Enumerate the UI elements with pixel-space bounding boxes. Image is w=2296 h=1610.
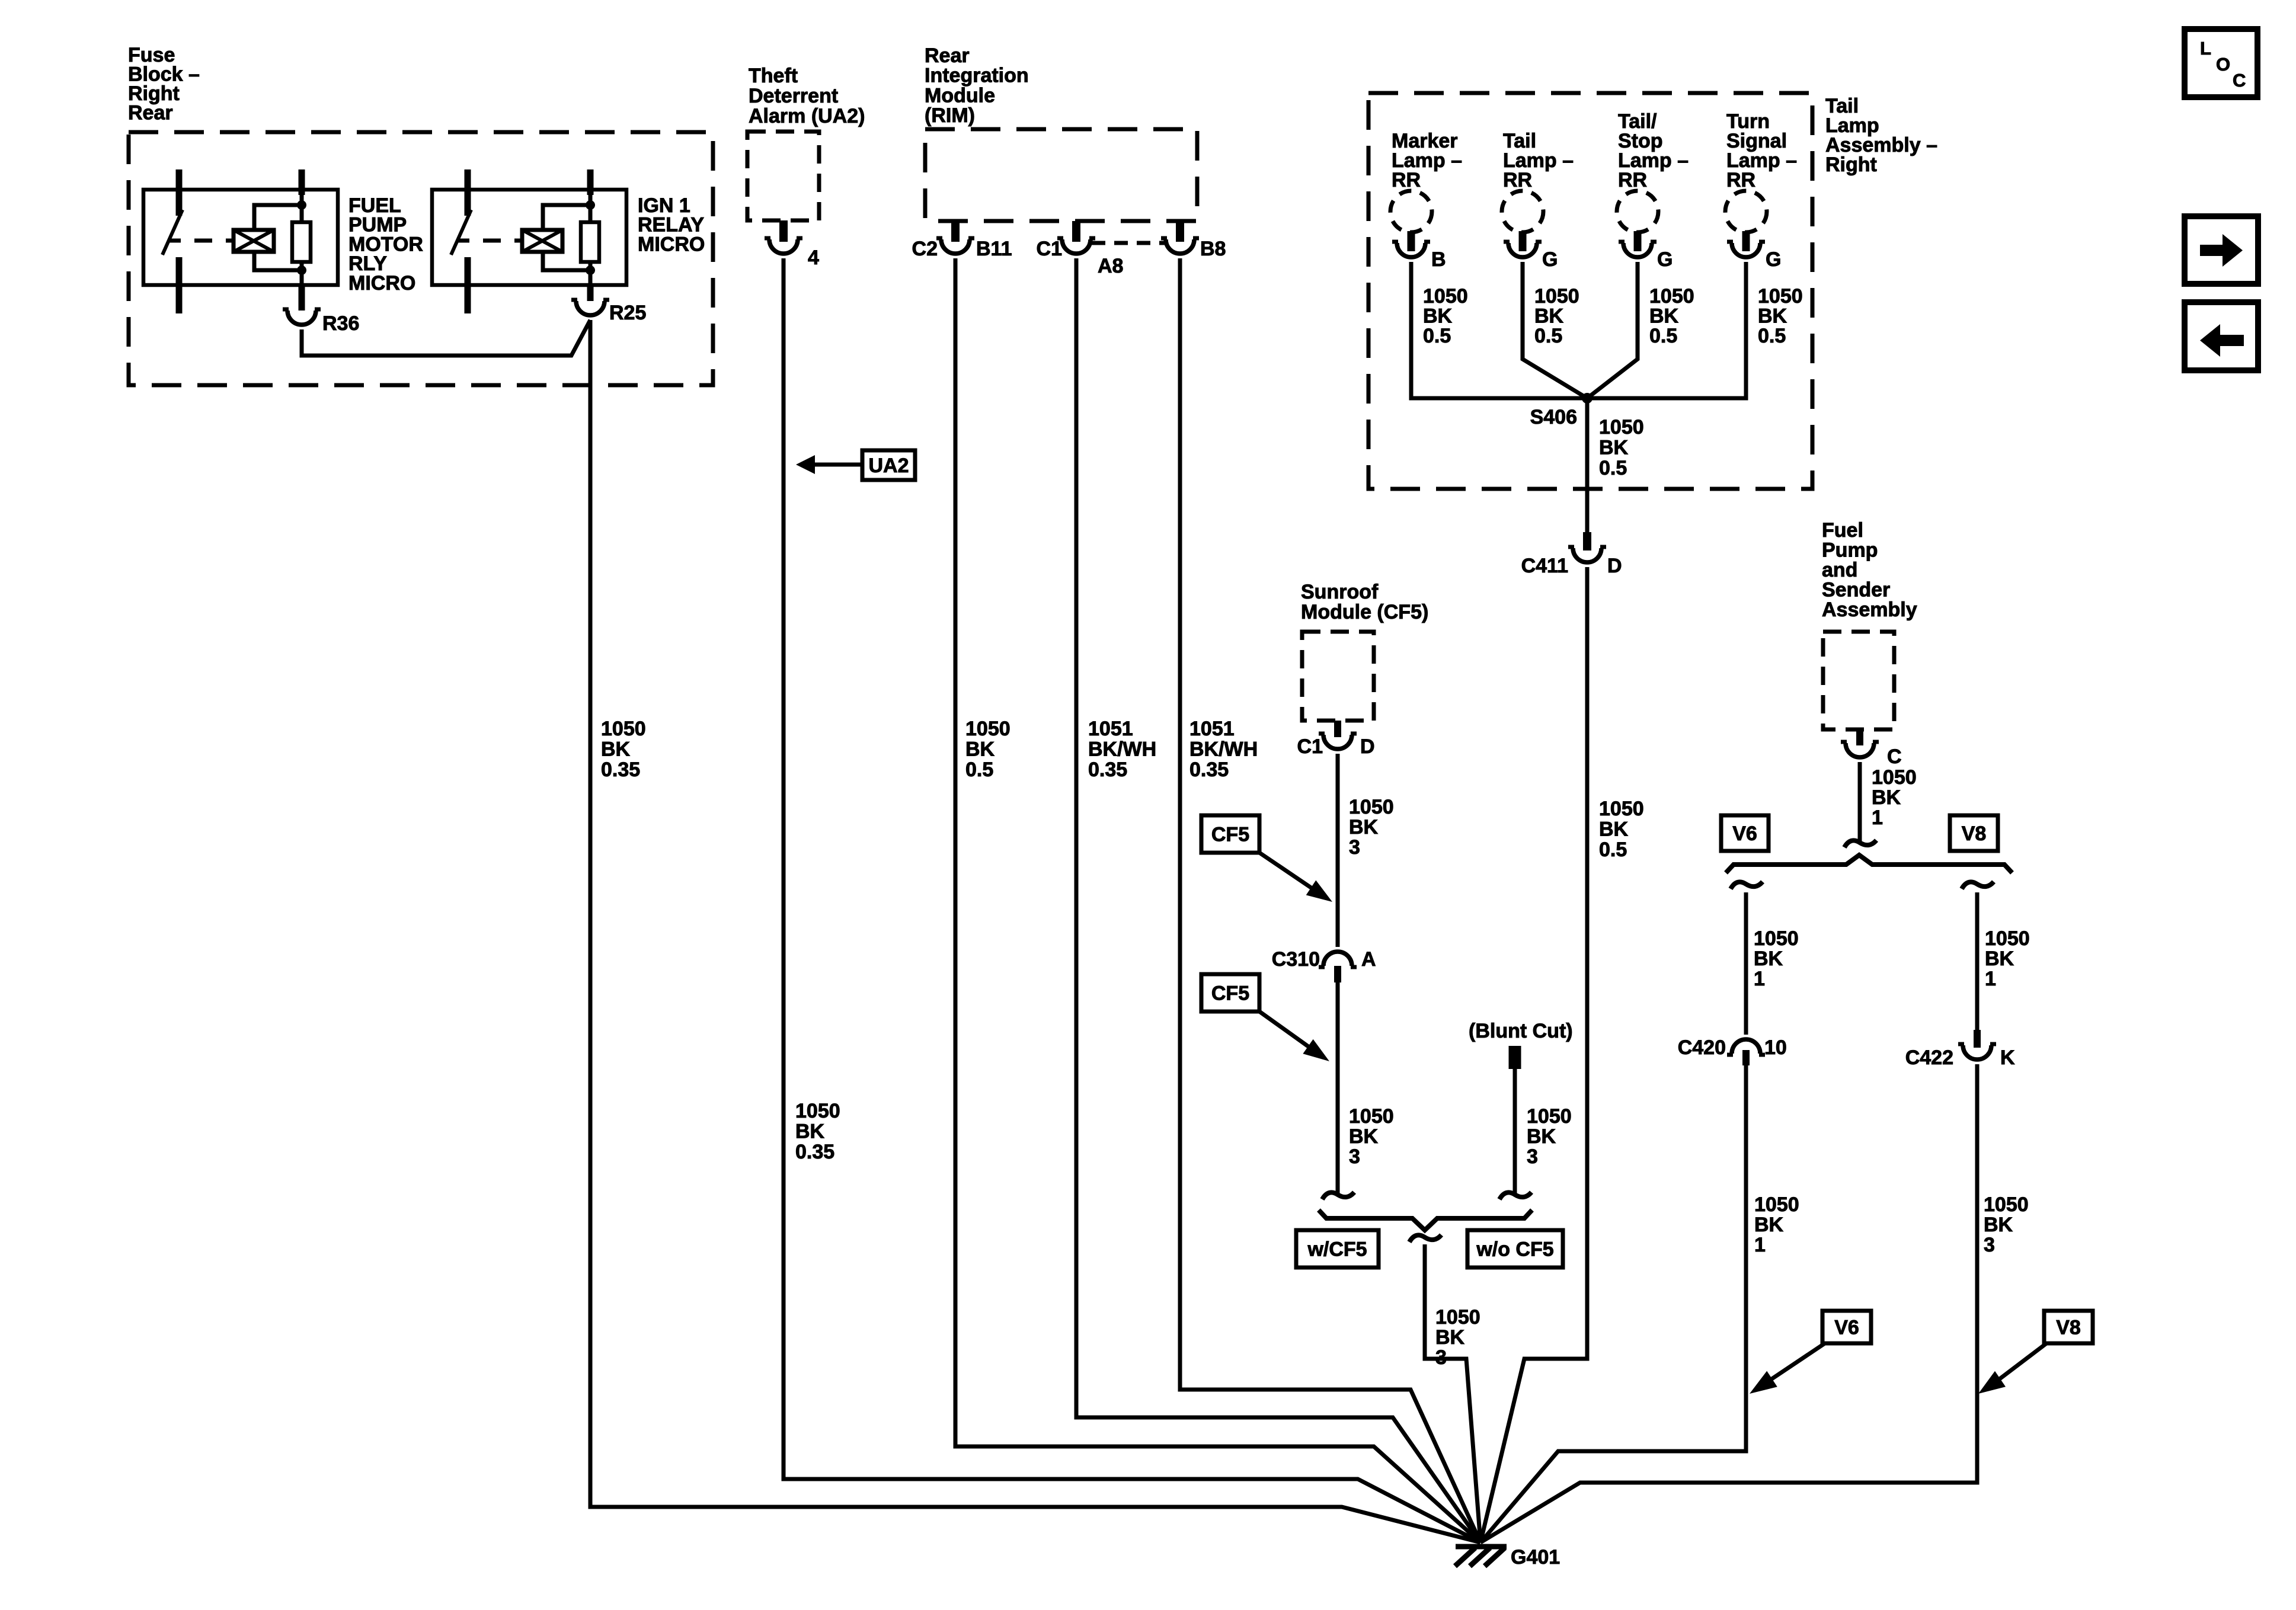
wire split to G401	[1425, 1244, 1480, 1542]
svg-text:BK: BK	[1435, 1326, 1465, 1349]
connector C411 pin bar	[1583, 532, 1591, 550]
svg-text:0.35: 0.35	[601, 758, 640, 781]
svg-text:G401: G401	[1511, 1546, 1560, 1569]
C420 pin bar	[1742, 1050, 1750, 1065]
wire label 1050 BK 1 (fuel pump)	[1872, 766, 1917, 829]
RIM C1 pin bar	[1072, 221, 1080, 242]
wire label 1050 BK 1 (C420)	[1754, 1193, 1799, 1256]
svg-text:C: C	[1887, 745, 1902, 768]
svg-text:Integration: Integration	[925, 65, 1029, 87]
connector R36 label	[322, 312, 359, 335]
svg-text:Rear: Rear	[128, 102, 173, 124]
connector C411	[1568, 547, 1606, 562]
svg-text:BK: BK	[1649, 305, 1679, 328]
connector C1 pin D (sunroof)	[1319, 734, 1357, 749]
svg-text:3: 3	[1527, 1145, 1538, 1168]
wire label 1050 BK 3 (blunt)	[1527, 1105, 1572, 1168]
svg-text:1050: 1050	[795, 1100, 840, 1122]
wire S406 to C411	[1585, 398, 1590, 532]
tail lamp RR label	[1503, 130, 1574, 191]
svg-text:0.5: 0.5	[1599, 838, 1627, 861]
fuel pump C pin bar	[1856, 729, 1863, 745]
fuel pump and sender assembly label	[1822, 519, 1917, 621]
svg-text:B: B	[1431, 248, 1446, 271]
next page arrow box	[2185, 216, 2258, 284]
svg-text:Rear: Rear	[925, 44, 970, 67]
turn signal lamp RR label	[1726, 110, 1797, 191]
svg-text:BK: BK	[1984, 1214, 2013, 1236]
svg-text:Assembly: Assembly	[1822, 598, 1917, 621]
previous page arrow box	[2185, 302, 2258, 370]
svg-text:CF5: CF5	[1211, 982, 1249, 1005]
svg-text:A: A	[1361, 948, 1376, 971]
svg-text:G: G	[1542, 248, 1558, 271]
wire label 1050 BK 0.5 (marker)	[1423, 285, 1468, 347]
tail/stop lamp RR bulb	[1617, 191, 1658, 232]
svg-text:Module (CF5): Module (CF5)	[1301, 601, 1428, 623]
CF5 arrow 2	[1259, 1012, 1329, 1061]
svg-text:Alarm (UA2): Alarm (UA2)	[749, 105, 865, 127]
svg-text:A8: A8	[1098, 255, 1123, 277]
svg-text:C1: C1	[1037, 238, 1062, 260]
svg-text:1050: 1050	[1435, 1306, 1480, 1329]
wire label 1050 BK 3 (split)	[1435, 1306, 1480, 1369]
svg-text:1: 1	[1754, 1234, 1766, 1256]
connector R36 pin bar	[299, 285, 305, 311]
relay FUEL PUMP MOTOR RLY MICRO label	[348, 194, 423, 295]
marker lamp RR pin bar	[1408, 231, 1415, 251]
wire C411 to G401	[1480, 567, 1587, 1542]
wire theft pin 4 to G401	[784, 258, 1480, 1542]
UA2 arrow	[796, 455, 862, 474]
sunroof pin D label	[1360, 735, 1375, 758]
marker lamp RR bulb	[1390, 191, 1432, 232]
svg-text:1050: 1050	[1754, 1193, 1799, 1216]
sunroof C1 label	[1297, 735, 1323, 758]
theft deterrent alarm label	[749, 65, 865, 127]
tail lamp assembly label	[1825, 95, 1937, 176]
svg-text:V6: V6	[1732, 822, 1757, 845]
connector C2 pin B11	[936, 238, 974, 254]
svg-text:1050: 1050	[1985, 927, 2030, 950]
svg-text:10: 10	[1764, 1036, 1787, 1059]
svg-text:C: C	[2233, 70, 2246, 91]
svg-text:L: L	[2200, 38, 2211, 59]
wire A8 to G401	[1076, 258, 1480, 1542]
V6 callout box (top)	[1721, 815, 1769, 851]
svg-text:(Blunt Cut): (Blunt Cut)	[1469, 1020, 1573, 1042]
wire label 1050 BK 0.5 (turn)	[1758, 285, 1803, 347]
wire label 1050 BK 0.5 (C411)	[1599, 798, 1644, 861]
svg-text:D: D	[1607, 555, 1622, 577]
svg-text:1050: 1050	[1599, 416, 1644, 438]
svg-text:BK: BK	[601, 738, 631, 761]
svg-text:1050: 1050	[1423, 285, 1468, 308]
svg-text:3: 3	[1349, 836, 1360, 859]
connector C422	[1958, 1044, 1996, 1060]
svg-text:C310: C310	[1272, 948, 1320, 971]
connector pin C (fuel pump)	[1841, 742, 1879, 757]
C420 label	[1678, 1036, 1726, 1059]
C411 pin D label	[1607, 555, 1622, 577]
svg-text:Deterrent: Deterrent	[749, 85, 838, 107]
S406 label	[1530, 406, 1577, 428]
wire marker lamp to S406	[1411, 262, 1587, 398]
fuel pump pin C label	[1887, 745, 1902, 768]
wire V6 branch to C420	[1731, 882, 1763, 1035]
G401 label	[1511, 1546, 1560, 1569]
svg-text:1050: 1050	[1349, 796, 1394, 818]
svg-text:0.5: 0.5	[1534, 325, 1562, 347]
C411 label	[1521, 555, 1568, 577]
turn signal lamp RR pin bar	[1742, 231, 1750, 251]
svg-text:C422: C422	[1905, 1046, 1953, 1069]
svg-text:1050: 1050	[1649, 285, 1694, 308]
wire tail/stop lamp to S406	[1587, 262, 1638, 398]
svg-text:0.5: 0.5	[1423, 325, 1451, 347]
svg-text:0.5: 0.5	[1758, 325, 1786, 347]
wire label 1050 BK 0.35 (theft)	[795, 1100, 840, 1163]
V8 callout box (top)	[1950, 815, 1998, 851]
tail/stop lamp RR label	[1618, 110, 1689, 191]
C310 label	[1272, 948, 1320, 971]
svg-text:0.35: 0.35	[1088, 758, 1127, 781]
blunt cut label	[1469, 1020, 1573, 1042]
relay FUEL PUMP MOTOR RLY MICRO	[143, 169, 338, 313]
connector C422 pin bar	[1974, 1030, 1981, 1048]
svg-text:3: 3	[1435, 1346, 1447, 1369]
wire label 1050 BK 0.5 (S406)	[1599, 416, 1644, 479]
svg-text:BK/WH: BK/WH	[1189, 738, 1258, 761]
svg-text:RR: RR	[1392, 169, 1421, 191]
connector B8	[1161, 238, 1199, 254]
svg-text:Theft: Theft	[749, 65, 798, 87]
tail/stop lamp RR pin G label	[1657, 248, 1673, 271]
relay IGN 1 RELAY MICRO	[432, 169, 626, 313]
V6 callout box (bottom)	[1822, 1311, 1871, 1343]
svg-text:O: O	[2216, 54, 2230, 75]
wire label 1050 BK 0.35 (R25)	[601, 718, 646, 781]
fuse block boundary	[129, 132, 713, 385]
RIM C2 pin bar	[951, 221, 960, 242]
svg-text:1050: 1050	[1527, 1105, 1572, 1128]
svg-text:1050: 1050	[1872, 766, 1917, 789]
svg-text:BK: BK	[1985, 948, 2014, 970]
wire label 1050 BK 0.5 (B11)	[965, 718, 1011, 781]
turn signal lamp RR pin G label	[1766, 248, 1781, 271]
svg-text:BK: BK	[965, 738, 995, 761]
svg-text:1050: 1050	[1349, 1105, 1394, 1128]
wire label 1050 BK 3 (sunroof)	[1349, 796, 1394, 859]
wire C420 to G401	[1480, 1063, 1746, 1542]
rear integration module label	[925, 44, 1029, 127]
svg-text:V6: V6	[1834, 1317, 1859, 1339]
RIM B8 pin bar	[1176, 221, 1184, 242]
wire label 1050 BK 0.5 (stop)	[1649, 285, 1694, 347]
svg-text:C420: C420	[1678, 1036, 1726, 1059]
connector C310 (inverted)	[1319, 952, 1357, 967]
wire C310 to split	[1322, 982, 1354, 1199]
C1 label	[1037, 238, 1062, 260]
C422 label	[1905, 1046, 1953, 1069]
option split brace (w/CF5 vs w/o CF5)	[1319, 1210, 1532, 1242]
svg-text:BK: BK	[795, 1121, 825, 1143]
UA2 circuit callout box	[862, 450, 915, 480]
svg-text:0.5: 0.5	[1649, 325, 1677, 347]
marker lamp RR pin B label	[1431, 248, 1446, 271]
svg-text:Pump: Pump	[1822, 539, 1878, 562]
svg-text:1050: 1050	[965, 718, 1011, 740]
svg-text:BK: BK	[1599, 437, 1629, 459]
wire blunt cut to split	[1499, 1069, 1531, 1199]
connector C1 pin A8	[1057, 238, 1095, 254]
CF5 callout box 1	[1201, 815, 1259, 853]
turn signal lamp RR bulb	[1725, 191, 1767, 232]
connector R25 label	[609, 302, 646, 324]
svg-text:BK/WH: BK/WH	[1088, 738, 1156, 761]
wire turn signal lamp to S406	[1587, 262, 1746, 398]
svg-text:1050: 1050	[1984, 1193, 2029, 1216]
wire label 1051 BK/WH 0.35 (B8)	[1189, 718, 1258, 781]
pin 4 label	[808, 247, 819, 269]
wire label 1050 BK 3 (C310)	[1349, 1105, 1394, 1168]
svg-text:R25: R25	[609, 302, 646, 324]
svg-text:C411: C411	[1521, 555, 1568, 577]
svg-text:R36: R36	[322, 312, 359, 335]
C310 pin A label	[1361, 948, 1376, 971]
A8 label	[1098, 255, 1123, 277]
svg-text:(RIM): (RIM)	[925, 104, 975, 127]
B8 label	[1200, 238, 1226, 260]
svg-text:RR: RR	[1726, 169, 1755, 191]
wire label 1050 BK 1 (V8)	[1985, 927, 2030, 990]
CF5 arrow 1	[1259, 853, 1332, 902]
svg-text:BK: BK	[1754, 948, 1783, 970]
svg-text:G: G	[1766, 248, 1781, 271]
svg-text:BK: BK	[1754, 1214, 1784, 1236]
tail lamp RR pin G label	[1542, 248, 1558, 271]
connector C420 (inverted)	[1727, 1039, 1765, 1055]
tail lamp RR connector	[1504, 242, 1542, 257]
svg-text:B8: B8	[1200, 238, 1226, 260]
svg-text:w/o CF5: w/o CF5	[1476, 1238, 1553, 1261]
svg-text:BK: BK	[1349, 1125, 1379, 1148]
connector R25	[571, 300, 609, 315]
fuel pump box	[1823, 632, 1894, 729]
wire B11 to G401	[955, 258, 1480, 1542]
splice S406	[1582, 393, 1593, 404]
C2 label	[912, 238, 938, 260]
tail/stop lamp RR connector	[1619, 242, 1657, 257]
wire V8 branch to C422	[1962, 882, 1994, 1030]
svg-text:3: 3	[1349, 1145, 1360, 1168]
svg-text:1: 1	[1872, 806, 1883, 829]
svg-text:and: and	[1822, 559, 1857, 581]
V8 callout box (bottom)	[2044, 1311, 2093, 1343]
svg-text:D: D	[1360, 735, 1375, 758]
svg-text:1050: 1050	[1599, 798, 1644, 820]
wire R36 to R25	[302, 320, 590, 356]
relay IGN 1 RELAY MICRO label	[638, 194, 705, 255]
svg-text:w/CF5: w/CF5	[1307, 1238, 1367, 1261]
svg-text:0.5: 0.5	[1599, 457, 1627, 479]
ground G401	[1455, 1547, 1507, 1566]
wire C422 to G401	[1480, 1064, 1977, 1542]
svg-text:BK: BK	[1534, 305, 1564, 328]
theft deterrent alarm box	[747, 132, 819, 220]
fuse block label	[128, 44, 200, 124]
svg-text:BK: BK	[1349, 816, 1379, 838]
svg-text:4: 4	[808, 247, 819, 269]
wire label 1050 BK 0.5 (tail)	[1534, 285, 1579, 347]
svg-text:Sender: Sender	[1822, 579, 1890, 601]
svg-text:RR: RR	[1503, 169, 1532, 191]
svg-text:BK: BK	[1758, 305, 1787, 328]
turn signal lamp RR connector	[1727, 242, 1765, 257]
sunroof C1 pin bar	[1334, 721, 1341, 737]
svg-text:1050: 1050	[601, 718, 646, 740]
V8 arrow	[1978, 1343, 2046, 1394]
connector R25 pin bar	[587, 285, 594, 301]
marker lamp RR connector	[1392, 242, 1430, 257]
svg-text:3: 3	[1984, 1234, 1995, 1256]
svg-text:Fuel: Fuel	[1822, 519, 1863, 542]
B11 label	[976, 238, 1012, 260]
connector pin 4	[765, 238, 802, 254]
marker lamp RR label	[1392, 130, 1462, 191]
svg-text:MICRO: MICRO	[348, 272, 415, 295]
sunroof module box	[1302, 632, 1374, 721]
svg-text:0.35: 0.35	[1189, 758, 1229, 781]
wire tail lamp to S406	[1523, 262, 1587, 398]
tail/stop lamp RR pin bar	[1634, 231, 1642, 251]
connector R36	[283, 309, 321, 325]
A8 dashed link	[1092, 241, 1168, 245]
svg-text:CF5: CF5	[1211, 824, 1249, 846]
engine option split brace (V6 vs V8)	[1726, 855, 2012, 873]
tail lamp RR bulb	[1502, 191, 1543, 232]
wire fuel pump to engine split	[1844, 762, 1876, 847]
svg-text:BK: BK	[1872, 786, 1901, 809]
svg-text:V8: V8	[1962, 822, 1987, 845]
svg-text:BK: BK	[1527, 1125, 1556, 1148]
w/o CF5 callout box	[1467, 1230, 1563, 1267]
svg-text:1051: 1051	[1088, 718, 1133, 740]
wire sunroof to C310	[1336, 754, 1340, 947]
svg-text:V8: V8	[2056, 1317, 2081, 1339]
wire R25 to G401	[590, 320, 1480, 1542]
svg-text:1050: 1050	[1534, 285, 1579, 308]
svg-text:Right: Right	[1825, 153, 1877, 176]
blunt cut terminal	[1509, 1046, 1521, 1069]
LOC legend box	[2185, 29, 2257, 97]
C422 pin K label	[2000, 1046, 2015, 1069]
svg-text:UA2: UA2	[868, 454, 909, 477]
svg-text:1: 1	[1754, 968, 1765, 990]
svg-text:C2: C2	[912, 238, 938, 260]
wire label 1050 BK 1 (V6)	[1754, 927, 1799, 990]
sunroof module label	[1301, 581, 1428, 623]
wire label 1051 BK/WH 0.35 (C1)	[1088, 718, 1156, 781]
theft pin bar	[779, 220, 788, 242]
svg-text:MICRO: MICRO	[638, 233, 705, 255]
wire B8 to G401	[1180, 258, 1480, 1542]
svg-text:C1: C1	[1297, 735, 1323, 758]
svg-text:S406: S406	[1530, 406, 1577, 428]
tail lamp RR pin bar	[1519, 231, 1527, 251]
C310 pin bar	[1334, 966, 1341, 982]
svg-text:BK: BK	[1423, 305, 1453, 328]
svg-text:Sunroof: Sunroof	[1301, 581, 1379, 603]
tail lamp assembly box	[1368, 93, 1812, 489]
svg-text:RR: RR	[1618, 169, 1647, 191]
svg-text:B11: B11	[976, 238, 1012, 260]
C420 pin 10 label	[1764, 1036, 1787, 1059]
CF5 callout box 2	[1201, 974, 1259, 1012]
svg-text:Module: Module	[925, 84, 995, 107]
svg-text:1050: 1050	[1758, 285, 1803, 308]
svg-text:G: G	[1657, 248, 1673, 271]
svg-text:1050: 1050	[1754, 927, 1799, 950]
svg-text:1051: 1051	[1189, 718, 1235, 740]
svg-text:0.5: 0.5	[965, 758, 993, 781]
rear integration module box	[925, 129, 1197, 221]
wire label 1050 BK 3 (C422)	[1984, 1193, 2029, 1256]
w/CF5 callout box	[1296, 1230, 1379, 1267]
svg-text:1: 1	[1985, 968, 1996, 990]
svg-text:K: K	[2000, 1046, 2015, 1069]
V6 arrow	[1750, 1343, 1825, 1394]
svg-text:BK: BK	[1599, 818, 1629, 841]
svg-text:0.35: 0.35	[795, 1141, 834, 1163]
